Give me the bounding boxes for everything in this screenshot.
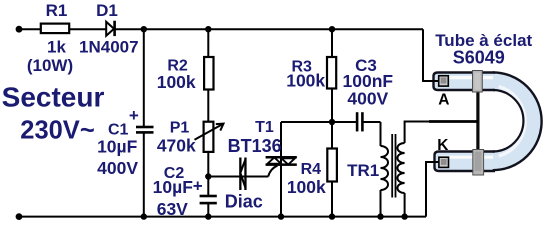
- svg-text:S6049: S6049: [453, 48, 505, 68]
- svg-text:470k: 470k: [157, 136, 196, 156]
- svg-text:R4: R4: [301, 161, 322, 178]
- svg-text:T1: T1: [255, 119, 274, 136]
- svg-text:10µF: 10µF: [153, 177, 194, 197]
- svg-text:P1: P1: [170, 120, 190, 137]
- svg-text:K: K: [437, 137, 449, 154]
- svg-text:63V: 63V: [157, 199, 188, 219]
- svg-text:100k: 100k: [286, 71, 325, 91]
- svg-text:A: A: [438, 92, 449, 109]
- svg-text:(10W): (10W): [27, 56, 73, 75]
- svg-text:400V: 400V: [347, 89, 388, 109]
- svg-text:230V~: 230V~: [20, 116, 94, 144]
- svg-text:R1: R1: [46, 1, 68, 20]
- svg-text:Diac: Diac: [225, 192, 263, 212]
- svg-text:+: +: [129, 106, 139, 125]
- svg-text:+: +: [193, 177, 203, 196]
- svg-text:TR1: TR1: [347, 161, 379, 180]
- svg-text:400V: 400V: [97, 158, 138, 178]
- svg-text:D1: D1: [96, 1, 118, 20]
- svg-text:100k: 100k: [287, 177, 326, 197]
- svg-text:Secteur: Secteur: [2, 81, 105, 112]
- svg-text:1k: 1k: [47, 37, 66, 56]
- svg-text:10µF: 10µF: [97, 137, 138, 157]
- svg-text:BT136: BT136: [228, 136, 282, 156]
- svg-text:1N4007: 1N4007: [79, 37, 139, 56]
- svg-text:100k: 100k: [157, 72, 196, 92]
